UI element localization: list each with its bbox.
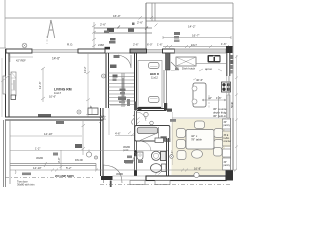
- hall light circle: [86, 152, 91, 157]
- right deck edge: [236, 55, 238, 170]
- wall stub below door: [110, 181, 112, 188]
- bottom wall left segment: [101, 176, 113, 180]
- label on LR bottom wall: [38, 114, 51, 117]
- svg-text:2'-6": 2'-6": [100, 23, 106, 27]
- stairs labels: [113, 75, 118, 78]
- bath upper room outline: [135, 126, 170, 142]
- pocket door squiggle lower: [133, 152, 136, 162]
- circle marker on stair wall: [102, 74, 106, 78]
- svg-text:1'-6": 1'-6": [157, 43, 163, 47]
- svg-text:12'-6": 12'-6": [38, 81, 42, 89]
- top-right wall corner: [226, 46, 233, 53]
- linen cabinet: [155, 138, 164, 143]
- living room vertical dimension: [41, 67, 45, 102]
- pedestal sink: [137, 152, 143, 160]
- bedroom right wall upper: [166, 53, 171, 70]
- bath right wall: [167, 138, 169, 176]
- svg-text:36": 36": [224, 122, 228, 124]
- bottom wall main segment: [146, 176, 226, 181]
- pillow top: [149, 63, 160, 69]
- svg-text:16'-0": 16'-0": [113, 14, 121, 18]
- label below LR wall: [56, 121, 64, 124]
- svg-text:2'-6": 2'-6": [137, 21, 143, 25]
- porch dim vertical: [60, 150, 63, 170]
- junction blob: [167, 109, 172, 112]
- circle marker on LR wall: [77, 110, 81, 114]
- svg-text:10'-6": 10'-6": [49, 95, 56, 99]
- top wall solid segment mid: [78, 49, 105, 53]
- pillow bottom: [149, 97, 160, 103]
- top wall segment bedroom-left: [130, 49, 147, 53]
- bedroom bottom wall: [137, 109, 166, 111]
- upper right dim line: [163, 36, 231, 39]
- left guide line: [0, 0, 6, 48]
- entry closet: [88, 108, 98, 115]
- dining area yellow tint: [172, 119, 226, 175]
- stairs stringer: [122, 73, 124, 107]
- closet door labels: [107, 28, 114, 32]
- chair right 3: [214, 148, 223, 157]
- top wall thin continuation: [105, 52, 135, 54]
- svg-text:1'-6": 1'-6": [221, 42, 227, 46]
- bedroom window top: [147, 50, 163, 53]
- living room dim chain x88: [86, 53, 90, 117]
- entry labels: [124, 160, 132, 163]
- right wall window: [227, 76, 230, 95]
- bottom-right corner wall: [226, 170, 234, 181]
- bedroom right wall mid: [164, 70, 167, 103]
- right wall window band: [227, 95, 230, 118]
- compass A symbol: [47, 20, 54, 38]
- svg-text:42" REF: 42" REF: [16, 59, 26, 63]
- hall small circle: [94, 156, 97, 159]
- stairs treads: [109, 73, 135, 105]
- chair bottom: [192, 150, 203, 158]
- chair left 3: [177, 151, 186, 160]
- porch left verticals: [4, 120, 6, 187]
- svg-text:36x80: 36x80: [36, 156, 44, 160]
- entry door arc: [104, 165, 123, 183]
- dish hutch cabinet: [176, 57, 196, 66]
- shower dark fixture: [161, 136, 167, 141]
- kitchen sink: [208, 55, 221, 63]
- dining top counter edge: [172, 117, 226, 119]
- circle on bottom wall: [194, 172, 199, 177]
- shower door diagonal: [140, 133, 159, 141]
- bedroom bottom clutter: [125, 160, 133, 164]
- svg-text:14'-2": 14'-2": [83, 66, 87, 73]
- wall end dark block: [105, 47, 111, 50]
- svg-text:200 AMP SERV: 200 AMP SERV: [55, 174, 74, 178]
- porch squiggle: [15, 170, 16, 174]
- dashed top guide: [46, 36, 48, 44]
- living room column: [11, 95, 16, 100]
- bath mid wall line: [128, 150, 168, 152]
- bathtub: [137, 127, 158, 134]
- svg-text:pantry: pantry: [224, 124, 231, 127]
- chair left 1: [177, 129, 186, 138]
- svg-text:36": 36": [224, 162, 228, 164]
- electric dashed line 1: [5, 177, 95, 179]
- svg-text:78" table: 78" table: [191, 138, 202, 142]
- stairs left wall: [106, 53, 109, 108]
- chair left 2: [177, 140, 186, 149]
- svg-text:counter: counter: [224, 140, 232, 143]
- window sill inner line: [9, 53, 33, 62]
- entry wall: [101, 108, 104, 176]
- porch front edge: [10, 164, 96, 171]
- pantry box: [223, 119, 231, 129]
- svg-text:14'-6": 14'-6": [52, 57, 60, 61]
- chair top: [195, 121, 205, 129]
- svg-text:2'-6": 2'-6": [133, 43, 139, 47]
- stove: [222, 82, 231, 92]
- dashed island line: [208, 95, 210, 108]
- svg-text:DN 2R: DN 2R: [75, 158, 83, 162]
- porch line 2: [10, 150, 128, 152]
- closet walls upper: [94, 28, 152, 33]
- bedroom door area clutter: [118, 97, 126, 101]
- upper-right outline: [146, 3, 233, 170]
- svg-text:pantry: pantry: [224, 164, 231, 167]
- svg-text:42": 42": [208, 96, 212, 100]
- long dimension line bottom: [10, 169, 236, 171]
- bottom wall door gap lines: [113, 176, 147, 180]
- extra note marks: [22, 173, 31, 176]
- circle marker top-left: [22, 43, 27, 48]
- bath left wall: [135, 111, 137, 176]
- circle marker above tub: [150, 121, 154, 125]
- bath door arc: [140, 141, 151, 151]
- svg-text:1'-2": 1'-2": [35, 147, 40, 151]
- toilet 1: [151, 151, 160, 160]
- left window leader: [1, 74, 11, 82]
- shower divider: [158, 127, 160, 141]
- circle symbol bath wall: [170, 155, 174, 159]
- bed room outline: [138, 61, 162, 109]
- svg-text:35 E: 35 E: [224, 135, 229, 137]
- svg-text:apron: apron: [205, 67, 213, 71]
- svg-text:11x12: 11x12: [151, 75, 158, 79]
- svg-text:5'-2": 5'-2": [66, 166, 72, 170]
- top wall solid segment left: [6, 49, 32, 53]
- svg-text:pock: pock: [123, 148, 129, 152]
- svg-text:buffet: buffet: [224, 137, 230, 140]
- svg-text:3'-0": 3'-0": [57, 157, 61, 163]
- hall door arc: [118, 55, 131, 68]
- hall circle symbol: [144, 112, 148, 116]
- toilet 2: [151, 164, 162, 173]
- living room bottom wall: [5, 117, 103, 120]
- left outer wall: [6, 49, 10, 117]
- top wall segment kitchen-left: [163, 49, 175, 53]
- left wall window: [3, 76, 6, 94]
- upper reference line: [5, 17, 146, 19]
- stoop 2: [155, 181, 170, 185]
- chair right 1: [214, 129, 223, 138]
- svg-text:5040: 5040: [230, 101, 234, 108]
- kitchen dim line: [202, 99, 226, 101]
- svg-text:4'-6": 4'-6": [115, 132, 121, 136]
- chair right 2: [214, 140, 223, 149]
- right wall lower: [231, 118, 233, 170]
- right wall window tags: [231, 55, 234, 59]
- stairs right wall: [135, 53, 137, 110]
- kitchen window band: [175, 49, 227, 53]
- svg-text:11x17: 11x17: [54, 91, 62, 95]
- left porch edge line: [1, 58, 3, 117]
- dining table: [186, 130, 214, 150]
- island stool 1: [192, 86, 197, 91]
- svg-text:16'-7": 16'-7": [192, 34, 200, 38]
- svg-text:14'-2": 14'-2": [188, 25, 196, 29]
- svg-text:14'-10": 14'-10": [44, 132, 53, 136]
- island stool 2: [192, 99, 197, 104]
- upper dim chain vertical: [92, 22, 96, 49]
- lower cab box: [223, 149, 231, 157]
- bed foot dark edge: [138, 107, 142, 111]
- electric dashed line 2: [100, 184, 230, 186]
- stairs down arrow: [122, 78, 124, 103]
- living room window top: [32, 49, 78, 53]
- no c label: [170, 119, 176, 122]
- svg-text:36x80 with trim: 36x80 with trim: [17, 183, 34, 187]
- upper right label stack: [174, 32, 180, 35]
- hall vertical dim: [82, 121, 86, 155]
- stoop 1: [130, 181, 145, 185]
- hall dim: [108, 108, 110, 135]
- svg-text:40'-6": 40'-6": [196, 78, 203, 82]
- hall door arc to bath: [137, 112, 146, 121]
- living room shelf unit: [11, 72, 16, 96]
- svg-text:2468: 2468: [98, 43, 104, 47]
- right outer wall: [227, 53, 230, 76]
- buffet box: [223, 131, 231, 146]
- kitchen dining divider: [218, 96, 220, 118]
- kitchen island: [193, 83, 206, 107]
- svg-text:Dish hutch: Dish hutch: [182, 67, 196, 71]
- svg-text:6'-0": 6'-0": [147, 43, 153, 47]
- bedroom right wall lower: [164, 103, 167, 111]
- svg-text:R.O.: R.O.: [67, 43, 73, 47]
- squiggle door: [132, 115, 135, 125]
- svg-text:36" built-in: 36" built-in: [213, 114, 227, 118]
- counter edge: [196, 63, 226, 65]
- linen closet label: [110, 38, 116, 41]
- svg-text:36x80: 36x80: [116, 172, 124, 176]
- porch line 1: [10, 135, 82, 137]
- svg-text:14'-10": 14'-10": [33, 166, 42, 170]
- kitchen top line with ticks: [163, 46, 233, 48]
